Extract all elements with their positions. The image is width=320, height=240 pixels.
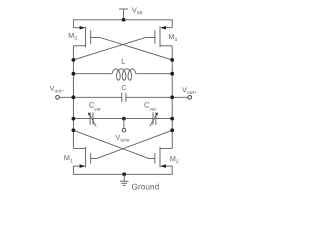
terminal V_out+ (open circle) (188, 95, 192, 99)
wire: right rail M2 source down to ground rail (171, 166, 173, 175)
wire: varactor branch left segment (73, 118, 90, 120)
node: inductor right junction (170, 72, 174, 76)
node: capacitor left junction (72, 95, 76, 99)
terminal V_tune (open circle) (122, 128, 126, 132)
wire: M3 gate to right node (diagonal) (100, 38, 172, 60)
node: capacitor right junction (170, 95, 174, 99)
power supply Vdd symbol (119, 9, 128, 20)
node: varactor right junction (170, 117, 174, 121)
inductor L (112, 69, 136, 80)
label M2 (170, 156, 178, 163)
capacitor C (122, 93, 126, 102)
label V_tune (115, 135, 129, 142)
label V_out+ (182, 87, 197, 94)
node: ground tap junction (122, 172, 126, 176)
wire: V_out- to left plate of C (59, 96, 122, 98)
varactor C_var (left) (88, 112, 96, 126)
wire: right plate of C to V_out+ (126, 96, 188, 98)
varactor C_var (right) (150, 112, 158, 126)
wire: left rail top corner down to M3 source (72, 19, 74, 27)
transistor M3 (PMOS, top-left) (73, 26, 100, 47)
wire: M2 gate to left node (diagonal) (73, 130, 148, 158)
wire: M4 gate to left node (diagonal) (73, 38, 145, 60)
transistor M4 (PMOS, top-right) (146, 26, 173, 47)
wire: left rail M1 source down to ground rail (72, 166, 74, 175)
node: Vdd tap junction (122, 18, 126, 22)
wire: varactor branch right segment (156, 118, 172, 120)
label M1 (64, 155, 72, 162)
wire: left rail from M3 drain to M1 drain (72, 46, 74, 149)
label M3 (69, 33, 77, 40)
node: inductor left junction (72, 72, 76, 76)
node: varactor left junction (72, 117, 76, 121)
wire: inductor branch left segment (73, 73, 112, 75)
wire: M1 gate to right node (diagonal) (97, 130, 172, 158)
wire: varactor branch center segment (93, 118, 153, 120)
wire: inductor branch right segment (136, 73, 172, 75)
transistor M1 (NMOS, bottom-left) (73, 147, 97, 168)
node: right bottom cross-couple junction (170, 128, 174, 132)
node: left top cross-couple junction (72, 58, 76, 62)
label V_dd (132, 8, 142, 15)
label C_var (left) (89, 102, 101, 110)
node: left bottom cross-couple junction (72, 128, 76, 132)
label Ground (132, 183, 159, 189)
wire: bottom ground rail (73, 173, 172, 175)
wire: right rail top corner down to M4 source (171, 19, 173, 27)
terminal V_out- (open circle) (56, 95, 60, 99)
label V_out- (50, 86, 65, 93)
label C (122, 85, 127, 90)
label L (122, 59, 125, 64)
wire: top Vdd rail (73, 19, 172, 21)
label M4 (169, 34, 177, 41)
ground symbol (120, 174, 129, 185)
transistor M2 (NMOS, bottom-right) (149, 147, 173, 168)
node: right top cross-couple junction (170, 58, 174, 62)
label C_var (right) (144, 102, 156, 110)
node: V_tune tap junction (122, 117, 126, 121)
wire: V_tune stub (123, 119, 125, 129)
wire: right rail from M4 drain to M2 drain (171, 46, 173, 149)
